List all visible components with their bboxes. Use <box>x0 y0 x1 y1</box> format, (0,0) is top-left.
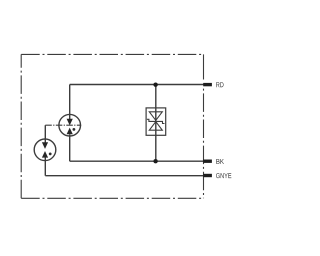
wire: RD line from corner to terminal <box>70 84 204 86</box>
junction node on RD line <box>153 83 157 87</box>
wire: vertical branch through TVS diode box <box>155 85 157 162</box>
terminal RD <box>203 83 212 86</box>
wire: BK line to terminal <box>70 160 204 162</box>
label RD <box>216 82 223 87</box>
TVS suppressor diode U1 (bidirectional, boxed) <box>146 108 166 135</box>
wire: vertical drop from RD line into arrester GDT1 <box>69 85 71 120</box>
wire: GDT1 bottom to BK line corner <box>69 134 71 161</box>
wire: link corner down to GDT2 top <box>44 125 46 142</box>
wire: GDT2 bottom to GNYE corner <box>44 157 46 175</box>
terminal BK <box>203 160 212 163</box>
label GNYE <box>216 173 231 178</box>
enclosure border (dash-dot) <box>21 54 203 198</box>
junction node on BK line <box>153 159 157 163</box>
gas discharge arrester GDT2 <box>34 139 56 161</box>
wire: GNYE line to terminal <box>45 175 203 177</box>
gas discharge arrester GDT1 (with disconnect link line) <box>45 114 81 136</box>
terminal GNYE <box>203 174 212 177</box>
label BK <box>216 159 224 164</box>
